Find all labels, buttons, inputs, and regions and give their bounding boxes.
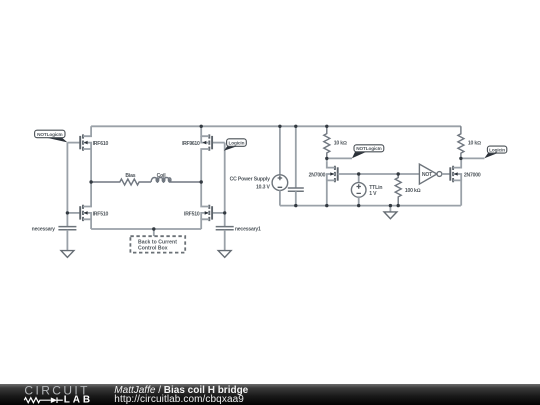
node: control box tap xyxy=(152,227,155,230)
svg-text:necessary: necessary xyxy=(32,226,55,232)
transistor Q4 IRF510 xyxy=(184,182,225,229)
svg-text:IRF510: IRF510 xyxy=(93,212,109,218)
node: R2 / bottom rail xyxy=(397,204,400,207)
node: H-bridge left output xyxy=(89,180,92,183)
svg-text:10.3 V: 10.3 V xyxy=(256,184,271,190)
footer bar xyxy=(0,384,540,405)
node: R1 / top rail xyxy=(325,125,328,128)
svg-text:CC Power Supply: CC Power Supply xyxy=(230,177,271,183)
svg-text:NOT: NOT xyxy=(422,172,433,178)
wire H-bridge bottom rail xyxy=(91,228,201,230)
svg-text:IRF9610: IRF9610 xyxy=(182,141,200,147)
label flag LogicIn (logic) xyxy=(484,146,506,158)
node: IRF510 right gate xyxy=(223,211,226,214)
node: R2 / gate wire xyxy=(397,172,400,175)
resistor Bias xyxy=(91,179,151,185)
capacitor C3 xyxy=(288,126,304,205)
svg-text:LogicIn: LogicIn xyxy=(228,140,244,145)
node NOTLogicIn net xyxy=(325,157,328,160)
wire left gate line xyxy=(66,143,68,227)
ground right xyxy=(218,251,231,258)
ground left xyxy=(61,251,74,258)
node: IRF510 left gate xyxy=(66,211,69,214)
wire LogicIn node xyxy=(461,157,485,159)
node: ground / bottom rail xyxy=(389,204,392,207)
svg-text:10 kΩ: 10 kΩ xyxy=(334,140,347,146)
svg-text:IRF510: IRF510 xyxy=(184,212,200,218)
svg-text:2N7000: 2N7000 xyxy=(464,172,481,178)
wire top rail xyxy=(91,125,461,127)
svg-text:Back to Current: Back to Current xyxy=(138,240,177,246)
node: C3 / bottom rail xyxy=(294,204,297,207)
transistor Q6 2N7000 (right) xyxy=(450,158,481,205)
svg-text:LAB: LAB xyxy=(64,395,93,405)
resistor R3 10 kOhm (right) xyxy=(458,126,464,158)
wire gate line TTL xyxy=(338,173,420,175)
transistor Q3 IRF510 xyxy=(67,182,108,229)
label flag LogicIn (H-bridge) xyxy=(224,139,246,151)
node: H-bridge right output xyxy=(200,180,203,183)
wire right bottom rail xyxy=(280,205,461,207)
svg-text:100 kΩ: 100 kΩ xyxy=(405,188,421,194)
resistor R2 100 kOhm xyxy=(395,174,401,206)
svg-text:2N7000: 2N7000 xyxy=(309,172,326,178)
capacitor C1 necessary xyxy=(32,226,77,250)
node: TTLin / gate wire xyxy=(357,172,360,175)
node: IRF9610 source / top rail xyxy=(200,125,203,128)
voltage source V1 CC Power Supply xyxy=(230,126,288,205)
annotation box Back to Current Control Box xyxy=(130,236,185,252)
ground logic xyxy=(389,206,391,212)
wire NOTLogicIn node xyxy=(327,157,352,159)
capacitor C2 necessary1 xyxy=(216,226,261,250)
logo resistor zigzag and diode wire xyxy=(24,397,63,403)
node LogicIn net xyxy=(459,157,462,160)
svg-text:Control Box: Control Box xyxy=(138,246,168,252)
wire right gate line xyxy=(224,143,226,227)
gate U1 NOT xyxy=(419,164,450,184)
transistor Q1 IRF610 xyxy=(67,126,108,182)
svg-text:LogicIn: LogicIn xyxy=(489,147,505,152)
transistor Q2 IRF9610 xyxy=(182,126,225,182)
svg-text:NOTLogicIn: NOTLogicIn xyxy=(37,132,63,137)
svg-text:http://circuitlab.com/cbqxaa9: http://circuitlab.com/cbqxaa9 xyxy=(114,394,244,405)
inductor Coil xyxy=(151,178,201,183)
voltage source V2 TTLin xyxy=(351,174,382,206)
label flag NOTLogicIn (H-bridge) xyxy=(35,130,68,142)
svg-text:necessary1: necessary1 xyxy=(235,226,261,232)
label flag NOTLogicIn (logic) xyxy=(352,145,384,159)
svg-text:Coil: Coil xyxy=(157,173,167,179)
svg-text:10 kΩ: 10 kΩ xyxy=(468,141,481,147)
node: CC supply + / top rail xyxy=(278,125,281,128)
svg-text:Bias: Bias xyxy=(125,173,135,179)
transistor Q5 2N7000 (left) xyxy=(309,158,338,205)
node: TTLin - / bottom rail xyxy=(357,204,360,207)
CircuitLab logo + footer text xyxy=(0,375,540,405)
node: Q5 source / bottom rail xyxy=(325,204,328,207)
node: C3 / top rail xyxy=(294,125,297,128)
resistor R1 10 kOhm (left) xyxy=(324,126,330,158)
wire stub to control box xyxy=(153,229,155,236)
svg-text:IRF610: IRF610 xyxy=(93,141,109,147)
svg-text:1 V: 1 V xyxy=(369,191,377,197)
logo diode triangle xyxy=(51,397,57,403)
svg-text:NOTLogicIn: NOTLogicIn xyxy=(356,146,382,151)
